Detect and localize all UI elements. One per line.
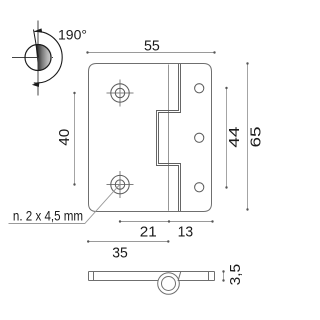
countersunk hole bottom-left: cross — [107, 171, 134, 198]
side view: right weld divider — [208, 272, 210, 281]
side view: left weld divider — [93, 272, 95, 281]
side view: right leaf bend line — [178, 272, 181, 282]
right leaf hole 3 — [195, 183, 204, 192]
svg-text:13: 13 — [178, 223, 194, 240]
dimension 44 line — [226, 88, 228, 188]
right leaf hole 1 — [195, 84, 204, 93]
opening-angle icon: rotated leaf line — [34, 30, 39, 58]
opening-angle icon: vertical crosshair — [37, 21, 39, 96]
left leaf stepped edge outer line — [157, 64, 179, 211]
dimension 55 line — [88, 52, 215, 54]
dimension 3,5 line — [223, 272, 225, 281]
side view: knuckle outer circle — [158, 273, 180, 295]
svg-text:n. 2 x 4,5 mm: n. 2 x 4,5 mm — [13, 209, 83, 224]
dimension 65 line — [247, 64, 249, 210]
countersunk hole top-left: cross — [107, 80, 134, 107]
right leaf hole 2 — [195, 133, 204, 142]
countersunk hole bottom-left: circles — [111, 175, 129, 193]
opening-angle icon: shaded half disc — [36, 44, 52, 70]
opening-angle icon: bottom arrowhead — [32, 82, 40, 87]
side view: right end cap — [214, 272, 216, 281]
opening-angle icon: horizontal crosshair — [12, 57, 53, 59]
dimension 21+13 line — [120, 221, 213, 223]
svg-text:21: 21 — [140, 223, 157, 240]
svg-text:65: 65 — [248, 127, 265, 148]
hole spec leader line — [9, 185, 120, 224]
side view: left end cap — [88, 272, 90, 281]
dimension 40 line — [74, 93, 76, 185]
svg-text:35: 35 — [112, 245, 128, 262]
svg-text:3,5: 3,5 — [227, 264, 244, 286]
svg-text:40: 40 — [56, 129, 73, 146]
opening-angle icon: 190 degree arc — [34, 31, 62, 83]
svg-text:190°: 190° — [58, 27, 87, 43]
dimension 35 line — [88, 241, 168, 243]
left leaf stepped edge inner line — [159, 64, 181, 211]
svg-text:55: 55 — [144, 37, 160, 54]
hinge plate outline — [89, 64, 212, 212]
countersunk hole top-left: circles — [111, 84, 129, 102]
leaf joint line — [168, 65, 170, 211]
svg-text:44: 44 — [226, 127, 243, 148]
side view: left leaf bottom line — [89, 280, 159, 282]
side view: right leaf bottom line — [179, 280, 215, 282]
side view: pin hole circle — [162, 277, 176, 291]
opening-angle icon: top arrowhead — [34, 28, 42, 32]
opening-angle icon: pivot circle — [25, 45, 51, 71]
side view: top surface line — [89, 271, 215, 273]
